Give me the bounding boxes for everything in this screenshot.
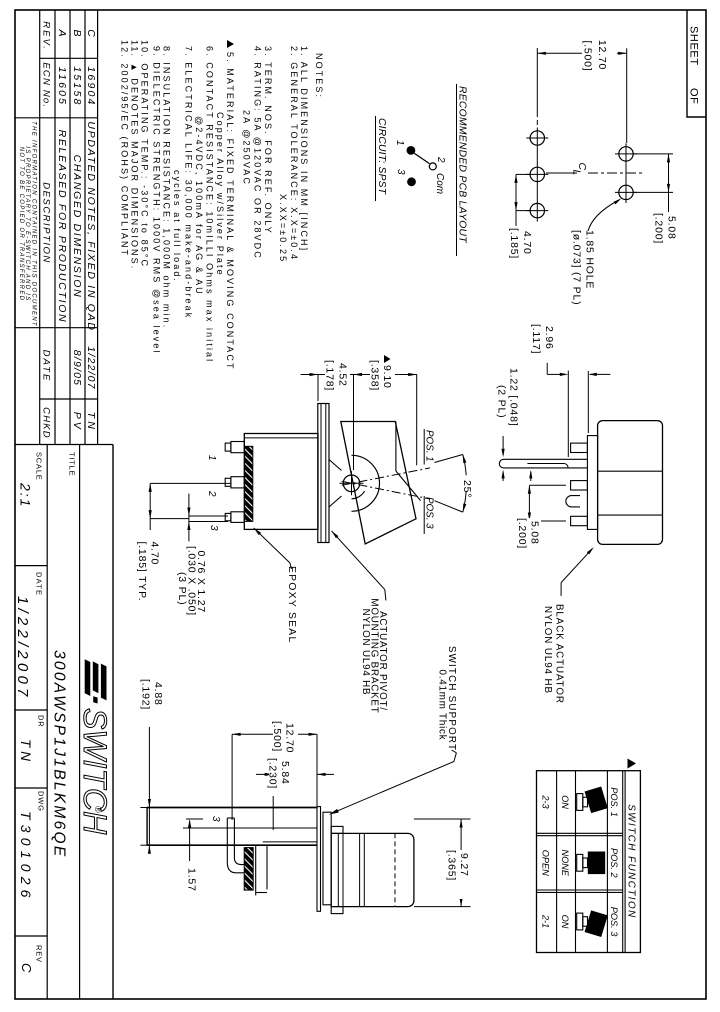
title block grid	[112, 445, 114, 1000]
svg-text:300AWSP1J1BLKM6QE: 300AWSP1J1BLKM6QE	[51, 650, 68, 859]
25 degree arc	[463, 455, 466, 476]
actuator bracket leader	[332, 531, 385, 590]
svg-text:9.10: 9.10	[381, 365, 393, 389]
svg-text:DATE: DATE	[41, 350, 52, 383]
svg-text:4.52: 4.52	[337, 363, 349, 387]
svg-text:2: 2	[435, 156, 446, 163]
svg-text:2. GENERAL TOLERANCE: X.X=±0: 2. GENERAL TOLERANCE: X.X=±0.4	[289, 46, 299, 261]
svg-text:POS. 2: POS. 2	[609, 848, 619, 878]
dim 12.70 front	[231, 734, 233, 820]
svg-text:[.358]: [.358]	[369, 360, 381, 391]
svg-text:REV: REV	[35, 945, 44, 963]
rear view support hook	[566, 496, 580, 507]
svg-text:BLACK ACTUATOR: BLACK ACTUATOR	[553, 604, 564, 704]
bracket sides	[329, 460, 342, 471]
svg-text:UPDATED NOTES, FIXED IN QAD: UPDATED NOTES, FIXED IN QAD	[85, 121, 97, 331]
svg-text:2A @250VAC: 2A @250VAC	[242, 110, 252, 186]
dim text 9.27	[447, 850, 472, 899]
svg-text:CHKD: CHKD	[41, 407, 52, 439]
svg-text:25°: 25°	[461, 480, 473, 498]
svg-text:RELEASED FOR PRODUCTION: RELEASED FOR PRODUCTION	[56, 130, 68, 324]
svg-text:6. CONTACT RESISTANCE: 10mILL: 6. CONTACT RESISTANCE: 10mILLI Ohms max …	[205, 46, 215, 363]
svg-text:B: B	[71, 29, 83, 36]
dim 4.70 pcb	[516, 173, 531, 175]
switch support leader	[452, 750, 457, 753]
dim text 5.84	[269, 758, 294, 796]
dim 9.10 / 4.52	[317, 375, 319, 402]
actuator paddle pos3	[341, 422, 416, 544]
switch function table grid	[537, 771, 641, 953]
dim 5.08 rear	[529, 484, 566, 486]
dim 0.76x1.27 terminal	[189, 515, 228, 517]
svg-text:THE INFORMATION CONTAINED IN T: THE INFORMATION CONTAINED IN THIS DOCUME…	[31, 121, 37, 327]
front view body step walls	[255, 845, 257, 895]
svg-text:1: 1	[206, 455, 217, 461]
circuit terminal 3 dot	[407, 177, 416, 186]
svg-text:1.22 [.048]: 1.22 [.048]	[508, 368, 520, 426]
svg-text:1/22/07: 1/22/07	[85, 346, 97, 389]
svg-text:[.117]: [.117]	[530, 324, 542, 354]
svg-text:12.70: 12.70	[284, 723, 296, 753]
svg-text:SCALE: SCALE	[35, 452, 44, 481]
svg-text:12. 2002/95/EC (ROHS) COMPLIA: 12. 2002/95/EC (ROHS) COMPLIANT	[120, 40, 130, 257]
front view support bar	[317, 807, 321, 912]
sheet-of box	[687, 10, 706, 117]
epoxy seal hatch side view	[245, 446, 253, 521]
svg-text:1.57: 1.57	[186, 868, 198, 892]
svg-text:5. MATERIAL: FIXED TERMINAL &: 5. MATERIAL: FIXED TERMINAL & MOVING CON…	[225, 52, 235, 371]
dim text 5.08 rear	[517, 518, 541, 560]
rocker icons	[577, 786, 608, 813]
front view body	[331, 833, 414, 906]
dim text 4.88	[141, 679, 164, 727]
circuit terminal 1 dot	[407, 146, 416, 155]
svg-text:3: 3	[208, 525, 219, 531]
svg-text:NOT TO BE COPIED OR TRANSFERRE: NOT TO BE COPIED OR TRANSFERRED	[18, 147, 24, 302]
actuator pivot	[343, 475, 360, 492]
front view terminal 3	[227, 818, 245, 873]
svg-text:NYLON UL94 HB: NYLON UL94 HB	[542, 606, 553, 694]
svg-text:NYLON UL94 HB: NYLON UL94 HB	[360, 609, 371, 696]
svg-text:[.200]: [.200]	[516, 518, 528, 549]
svg-text:4.88: 4.88	[152, 682, 164, 706]
svg-text:TITLE: TITLE	[67, 452, 76, 476]
dim text 12.70 front	[273, 720, 298, 758]
svg-text:(2 PL): (2 PL)	[496, 385, 508, 418]
svg-text:8. INSULATION RESISTANCE: 1,0: 8. INSULATION RESISTANCE: 1,000M ohm min…	[162, 46, 172, 329]
pcb centerline CL	[546, 172, 577, 174]
svg-text:ECN No.: ECN No.	[41, 62, 52, 108]
circuit common pole	[429, 163, 436, 170]
revision table grid	[97, 10, 99, 445]
svg-text:CIRCUIT: SPST: CIRCUIT: SPST	[376, 118, 387, 195]
svg-text:DWG: DWG	[37, 791, 46, 812]
svg-text:12.70: 12.70	[596, 40, 608, 70]
svg-text:TN: TN	[85, 412, 97, 432]
dim 4.88	[140, 807, 155, 809]
svg-text:1. ALL DIMENSIONS IN MM [INCH: 1. ALL DIMENSIONS IN MM [INCH]	[299, 46, 309, 252]
terminals side view	[231, 442, 244, 453]
svg-text:1.85 HOLE: 1.85 HOLE	[584, 230, 596, 289]
svg-text:C: C	[19, 963, 34, 973]
svg-text:2-3: 2-3	[541, 794, 551, 809]
dim 1.22 blade	[502, 436, 504, 455]
black actuator leader	[560, 583, 562, 596]
svg-text:Copper Alloy w/Silver Plate: Copper Alloy w/Silver Plate	[215, 112, 225, 277]
svg-text:15158: 15158	[71, 66, 83, 106]
svg-text:[.230]: [.230]	[267, 758, 279, 789]
actuator paddle pos1 phantom	[395, 422, 397, 471]
svg-text:9.27: 9.27	[458, 853, 470, 877]
dim 1.57	[189, 821, 191, 866]
svg-text:[.178]: [.178]	[324, 360, 336, 391]
rear view body	[598, 421, 663, 545]
svg-text:Com: Com	[434, 173, 445, 194]
svg-text:5.08: 5.08	[666, 216, 678, 240]
svg-text:4.70: 4.70	[521, 231, 533, 255]
svg-text:2-1: 2-1	[541, 914, 551, 928]
svg-text:DESCRIPTION: DESCRIPTION	[41, 182, 52, 263]
svg-text:IS PROPRIETARY TO E-SWITCH AND: IS PROPRIETARY TO E-SWITCH AND IS	[24, 146, 30, 301]
svg-text:9. DIELECTRIC STRENGTH: 1000V: 9. DIELECTRIC STRENGTH: 1000V RMS @sea l…	[152, 46, 162, 355]
svg-text:L: L	[571, 170, 583, 176]
dim text 12.70 pcb	[582, 33, 617, 78]
dim 12.70 pcb	[536, 48, 538, 112]
svg-text:0.41mm Thick: 0.41mm Thick	[437, 670, 448, 741]
svg-text:11. ▲ DENOTES MAJOR DIMENSION: 11. ▲ DENOTES MAJOR DIMENSIONS.	[130, 40, 140, 270]
svg-text:POS. 1: POS. 1	[609, 787, 619, 817]
svg-text:[.365]: [.365]	[446, 850, 458, 881]
svg-text:3. TERM. NOS. FOR REF. ONLY: 3. TERM. NOS. FOR REF. ONLY	[263, 46, 273, 235]
svg-text:DATE: DATE	[35, 572, 44, 596]
svg-text:POS. 3: POS. 3	[609, 907, 619, 938]
svg-text:SWITCH SUPPORT: SWITCH SUPPORT	[446, 646, 457, 751]
position centerlines	[342, 468, 430, 485]
svg-text:16904: 16904	[85, 66, 97, 106]
svg-text:POS. 1: POS. 1	[424, 430, 435, 462]
dim text 1.57	[186, 861, 197, 893]
svg-text:10. OPERATING TEMP.: -30°C t: 10. OPERATING TEMP.: -30°C to 85°C	[140, 40, 150, 268]
dim text 9.10	[370, 353, 395, 398]
svg-text:SHEET: SHEET	[688, 26, 700, 66]
E-Switch logo mark	[101, 664, 107, 701]
svg-text:(3 PL): (3 PL)	[176, 572, 188, 605]
dim 4.70 typ terminals	[150, 482, 231, 484]
front view actuator blade	[147, 807, 317, 809]
svg-text:REV.: REV.	[41, 21, 52, 50]
svg-text:TN: TN	[18, 739, 33, 765]
svg-text:A: A	[56, 28, 68, 36]
svg-text:POS. 3: POS. 3	[424, 497, 435, 529]
dim 5.84	[272, 777, 274, 830]
svg-text:[.500]: [.500]	[271, 721, 283, 752]
svg-text:4.70: 4.70	[149, 542, 161, 566]
pcb layout holes	[530, 131, 544, 145]
svg-text:OF: OF	[688, 88, 700, 104]
pcb hole crosshairs	[526, 137, 548, 139]
svg-text:DR: DR	[37, 715, 46, 727]
svg-text:[.192]: [.192]	[140, 679, 152, 710]
svg-text:3: 3	[395, 169, 406, 175]
rear view actuator blade	[499, 459, 587, 468]
svg-text:2.96: 2.96	[543, 326, 555, 350]
svg-text:SWITCH: SWITCH	[77, 708, 113, 835]
dim 2.96	[546, 363, 548, 375]
svg-text:CHANGED DIMENSION: CHANGED DIMENSION	[71, 155, 83, 299]
svg-text:[.500]: [.500]	[582, 40, 594, 71]
dim 5.08 pcb	[634, 153, 673, 155]
svg-text:2:1: 2:1	[18, 482, 34, 508]
svg-text:SWITCH FUNCTION: SWITCH FUNCTION	[626, 804, 637, 918]
bracket head arcs	[352, 455, 380, 511]
svg-text:T301026: T301026	[18, 811, 34, 903]
svg-text:cycles at full load.: cycles at full load.	[172, 170, 182, 283]
dim 9.27	[414, 818, 471, 820]
svg-text:5.84: 5.84	[279, 761, 291, 785]
switch function triangle	[628, 759, 637, 769]
svg-text:NONE: NONE	[560, 850, 570, 877]
svg-text:[.185] TYP.: [.185] TYP.	[136, 542, 148, 602]
svg-text:1/22/2007: 1/22/2007	[14, 596, 31, 701]
svg-text:8/9/05: 8/9/05	[71, 350, 83, 386]
svg-text:EPOXY SEAL: EPOXY SEAL	[286, 566, 297, 644]
svg-text:2: 2	[206, 490, 217, 497]
svg-text:@2-4VDC, 100mA for AG & AU: @2-4VDC, 100mA for AG & AU	[194, 116, 204, 296]
svg-text:OPEN: OPEN	[541, 850, 551, 876]
note 5 major-dim triangle	[227, 40, 234, 48]
svg-text:C: C	[85, 29, 97, 37]
svg-text:ON: ON	[560, 795, 570, 809]
svg-text:X.XX=±0.25: X.XX=±0.25	[278, 194, 288, 263]
epoxy seal leader	[254, 528, 290, 563]
svg-text:7. ELECTRICAL LIFE: 30,000 ma: 7. ELECTRICAL LIFE: 30,000 make-and-brea…	[184, 46, 194, 319]
svg-text:3: 3	[210, 816, 221, 822]
rear view plate	[587, 436, 597, 530]
circuit switch arm	[414, 153, 429, 163]
svg-text:1: 1	[394, 140, 405, 146]
dim text 4.52	[325, 359, 350, 400]
svg-text:[.185]: [.185]	[508, 228, 520, 259]
svg-text:[ø.073] (7 PL): [ø.073] (7 PL)	[571, 230, 583, 305]
rear view terminals	[571, 443, 588, 452]
front view epoxy hatch	[244, 848, 253, 891]
svg-text:PV: PV	[71, 412, 83, 432]
pos leaders	[435, 455, 463, 463]
svg-text:RECOMMENDED PCB LAYOUT: RECOMMENDED PCB LAYOUT	[457, 86, 468, 243]
svg-text:NOTES:: NOTES:	[314, 53, 324, 99]
svg-text:ON: ON	[560, 915, 570, 929]
svg-text:4. RATING: 5A @120VAC OR 28VD: 4. RATING: 5A @120VAC OR 28VDC	[253, 46, 263, 260]
svg-text:®: ®	[93, 806, 103, 813]
svg-text:[.200]: [.200]	[653, 213, 665, 244]
svg-text:11605: 11605	[56, 67, 68, 106]
switch body side view	[244, 434, 318, 530]
leader 1.85 hole	[588, 201, 618, 232]
svg-text:5.08: 5.08	[529, 521, 541, 545]
mounting plate side view	[318, 404, 329, 543]
